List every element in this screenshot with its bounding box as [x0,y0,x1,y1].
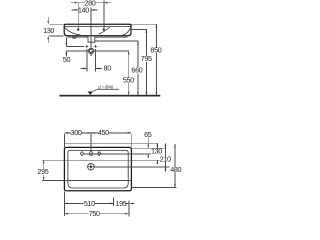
svg-text:850: 850 [150,45,161,54]
bowl back edge line [42,159,160,161]
plan inner bottom extension right [132,186,177,188]
svg-text:65: 65 [144,130,152,139]
floor line [60,95,161,97]
basin outer outline [64,24,131,36]
plan outer rect [64,147,131,190]
dim 660 [131,41,142,95]
dim 510 [64,199,113,208]
dim 450 [91,128,131,137]
dim 850 [150,24,161,95]
tap hole left [80,152,84,156]
dim 195 [116,199,135,208]
basin inner rim line [65,26,131,28]
center line plan [90,133,92,152]
dim 550 [123,51,134,95]
svg-text:295: 295 [37,167,48,176]
bowl curve left [65,27,81,35]
svg-text:140: 140 [78,5,89,14]
dim 300 [65,128,132,147]
plan top edge extension right [132,147,167,149]
dim 295 [37,160,48,181]
dim 210 [160,143,171,171]
extension line left fixing hole [77,3,79,28]
svg-text:795: 795 [141,54,152,63]
dim 65 [144,130,152,158]
dim 280 [71,0,111,7]
extension bolt level [66,45,84,47]
svg-text:300: 300 [71,128,82,137]
trap connection G [88,48,93,53]
wall line behind basin [64,142,158,144]
svg-text:80: 80 [104,64,112,73]
svg-text:50: 50 [63,55,71,64]
dim 130 (basin height) [43,17,63,43]
dim 750 [64,209,128,218]
extension line right fixing hole [103,1,105,29]
svg-text:195: 195 [116,199,127,208]
dim 130 plan [151,143,162,164]
drain stub [88,36,95,42]
svg-text:750: 750 [89,209,100,218]
extension stub to 660 [95,40,139,42]
svg-text:660: 660 [131,66,142,75]
svg-text:210: 210 [160,155,171,164]
floor level symbol [88,91,94,95]
tap hole right [97,152,101,156]
svg-text:480: 480 [170,165,181,174]
svg-text:450: 450 [98,128,109,137]
center line [90,8,92,57]
dim 140 [72,5,98,14]
overflow knob [73,36,76,38]
extension rim top to 850 [131,23,157,25]
dim 795 [141,30,152,96]
bowl curve right [99,27,110,34]
apron second line [67,36,127,38]
bolt symbol left [85,45,89,49]
dim 80 [80,49,111,73]
bolt symbol right [94,45,98,49]
dim 480 [170,144,181,188]
plan inner rect [68,150,128,188]
shelf slant right [123,29,130,36]
bowl front edge line [42,180,131,182]
dim 50 [63,37,71,63]
svg-text:130: 130 [43,26,54,35]
fixing hole left [77,28,79,30]
svg-text:d = Ø40: d = Ø40 [98,84,114,89]
extension hole level to 795 [131,29,147,31]
drain outlet [87,163,94,170]
fixing hole right [103,28,105,30]
extension trap level [66,50,129,52]
bottom extension lines [64,192,128,217]
svg-text:550: 550 [123,75,134,84]
svg-text:510: 510 [84,199,95,208]
hole level extension [84,153,151,155]
tap hole center [89,152,93,156]
drain level extension [95,166,170,168]
